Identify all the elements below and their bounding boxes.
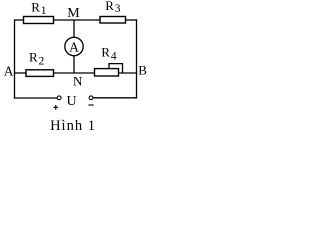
wire bottom left segment [14,97,58,99]
resistor R3 [100,17,126,24]
wire left vertical [14,19,16,98]
svg-text:R: R [105,0,114,13]
wire middle rail right segment [119,72,138,74]
label R3 [105,0,121,15]
rheostat R4 [95,64,123,76]
svg-text:A: A [69,39,79,54]
terminal negative [89,96,93,100]
label R1 [31,0,47,17]
polarity minus [88,104,93,106]
label R4 [101,44,117,62]
svg-text:3: 3 [115,3,121,15]
wire top rail left segment [15,19,25,21]
wire top rail right segment [126,19,138,21]
svg-text:Hình 1: Hình 1 [50,118,96,134]
resistor R2 [26,70,54,77]
svg-text:R: R [31,0,40,14]
wire middle rail center segment [54,72,96,74]
wire top rail middle segment [54,19,101,21]
wire M to ammeter [73,20,75,38]
svg-text:4: 4 [111,51,117,63]
svg-text:M: M [67,6,80,21]
svg-text:R: R [101,44,110,59]
svg-text:A: A [4,63,14,78]
resistor R1 [24,17,54,24]
svg-text:R: R [29,49,38,64]
svg-text:N: N [73,73,83,88]
svg-text:1: 1 [41,5,47,17]
svg-text:2: 2 [39,55,45,67]
ammeter [65,37,83,55]
svg-text:B: B [138,62,147,77]
terminal positive [57,96,61,100]
wire ammeter to N [73,56,75,73]
wire middle rail left segment [15,72,27,74]
label R2 [29,49,45,67]
wire right vertical [136,19,138,98]
svg-text:U: U [67,94,77,109]
wire bottom right segment [93,97,137,99]
polarity plus [53,105,58,110]
